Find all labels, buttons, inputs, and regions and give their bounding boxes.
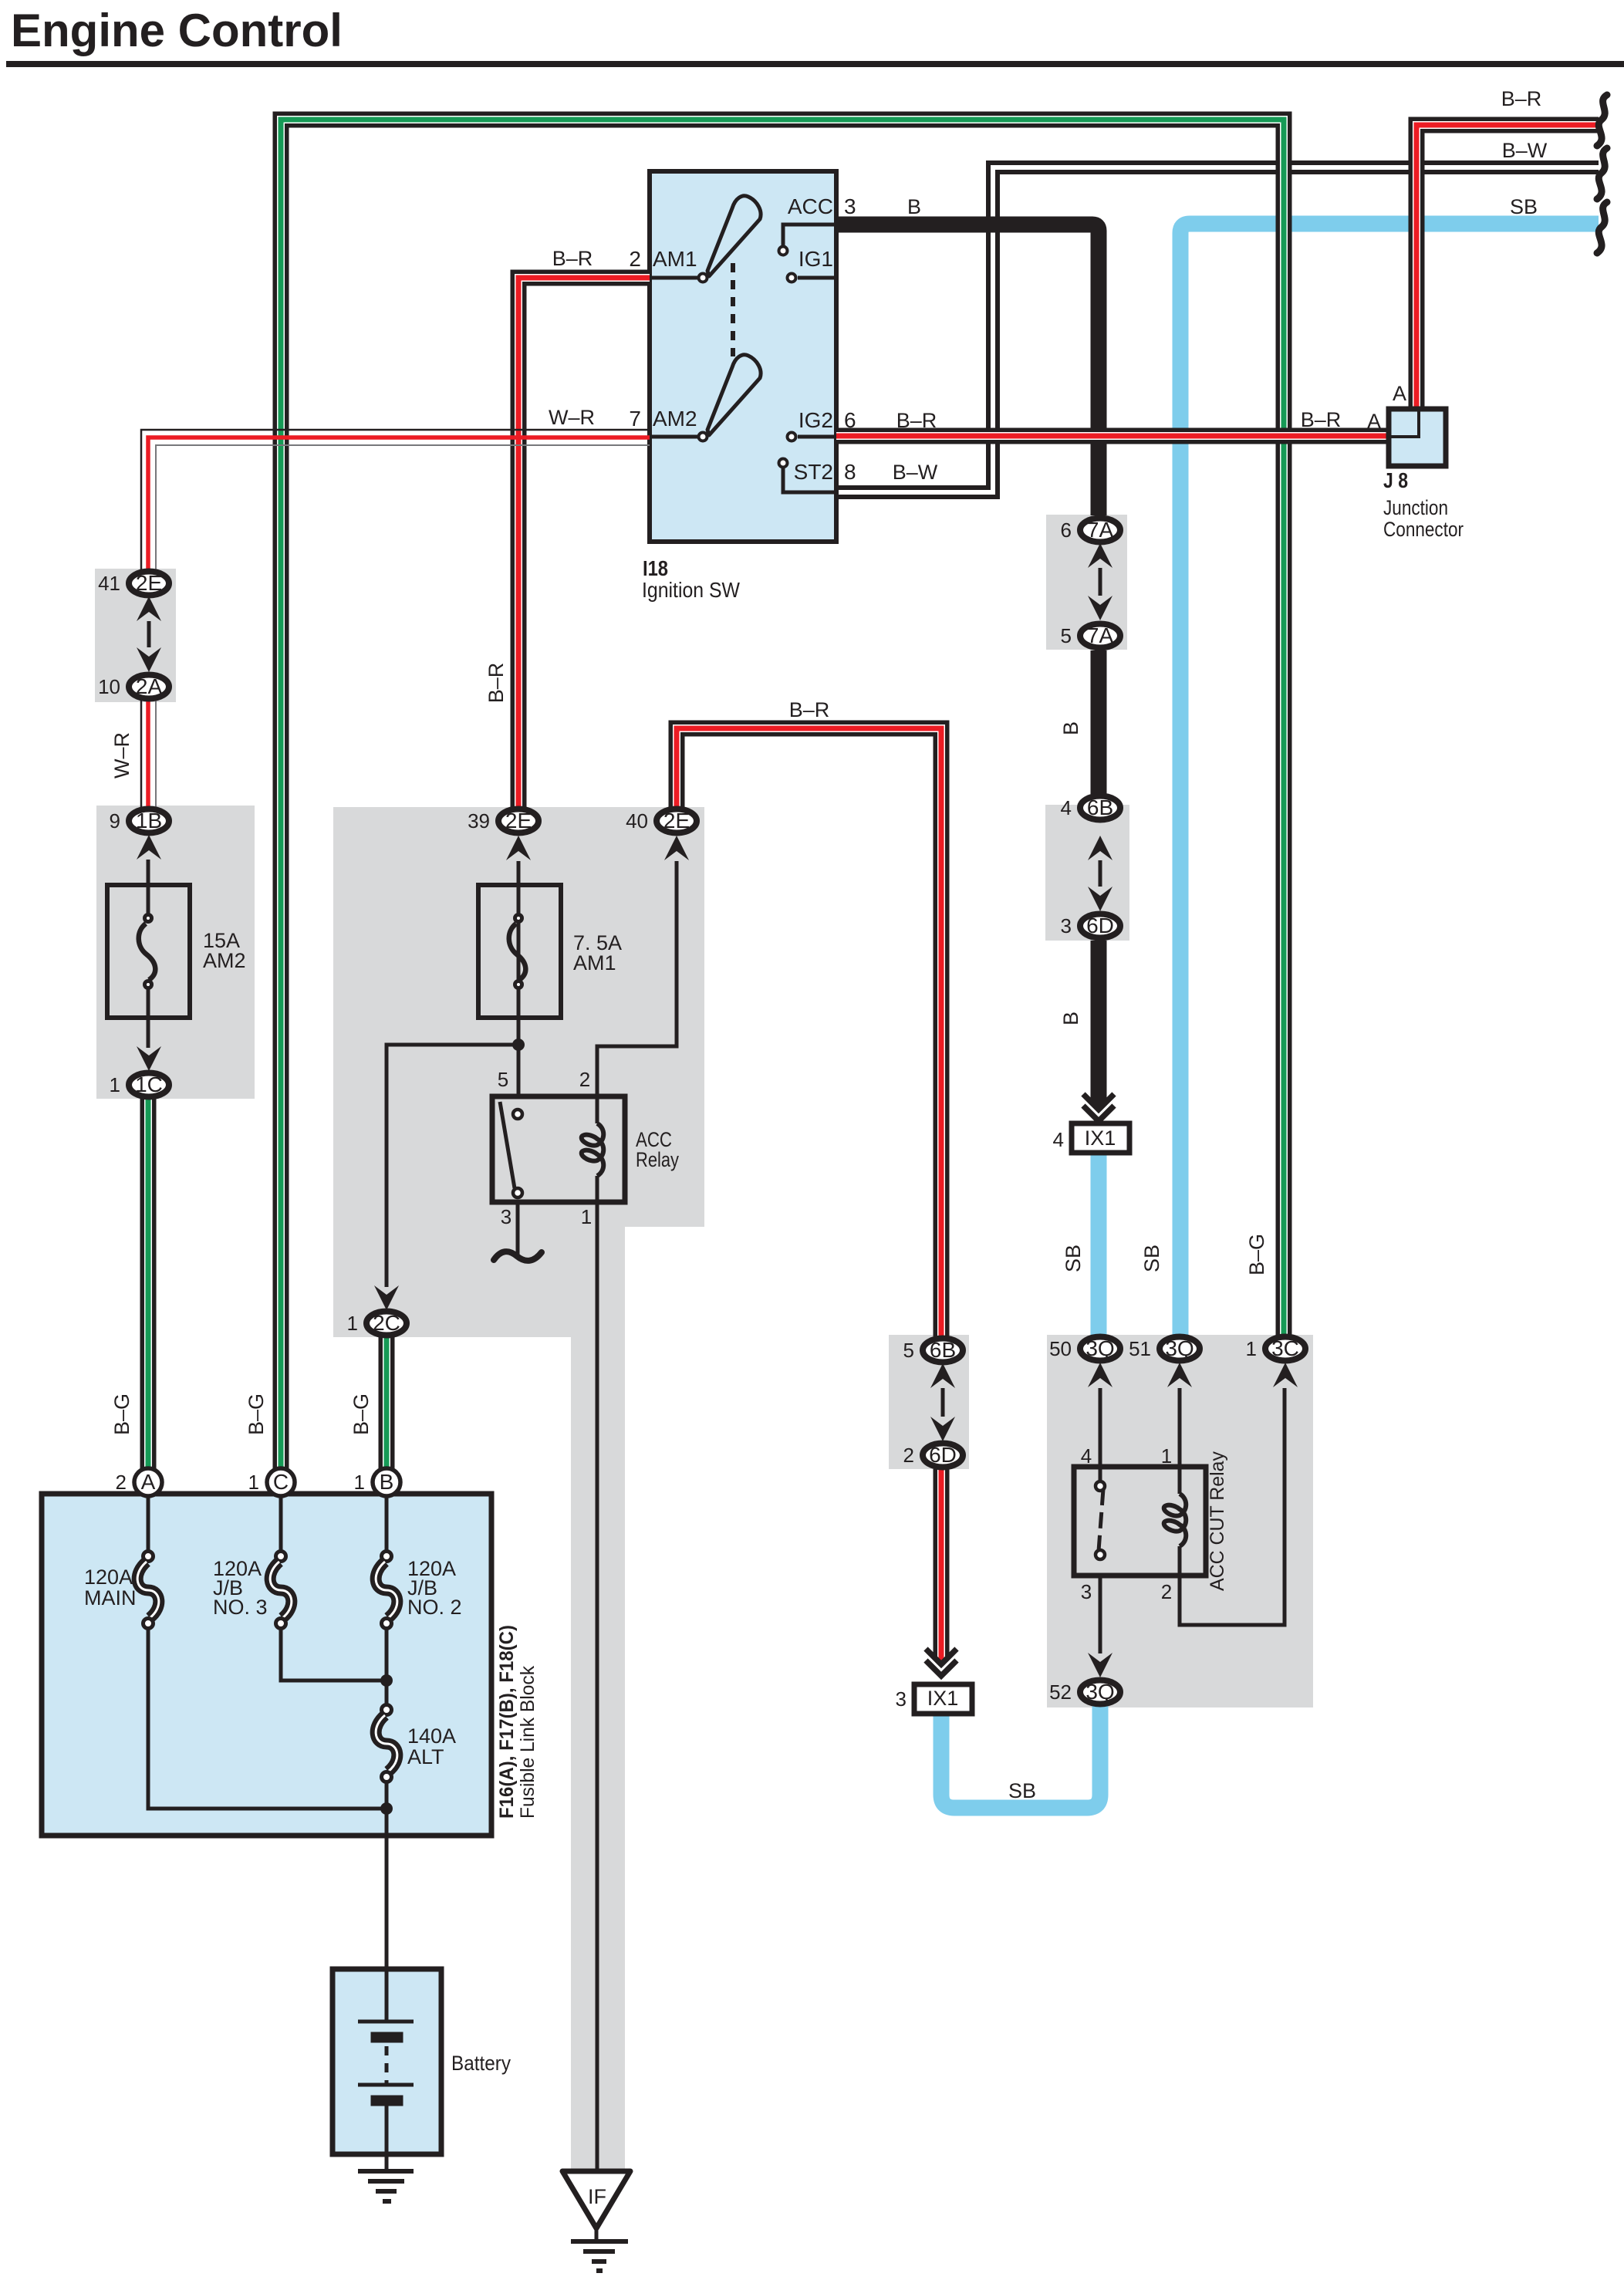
wire B-W from ST2 pin 8 to right edge: [836, 163, 1599, 497]
arrow into 5-7A: [1088, 596, 1112, 620]
svg-text:IG1: IG1: [798, 247, 833, 271]
wire B-G from fusible link C to ACC CUT relay 1-3C: [281, 120, 1284, 1475]
svg-text:B: B: [1059, 1012, 1082, 1025]
svg-text:IG2: IG2: [798, 408, 833, 432]
svg-text:B: B: [907, 195, 921, 218]
arrow into 1-2C: [374, 1285, 399, 1310]
svg-text:40: 40: [626, 809, 648, 833]
svg-text:B–W: B–W: [893, 461, 938, 484]
gray box around 1B / 15A AM2 fuse / 1C: [96, 806, 255, 1099]
svg-text:41: 41: [98, 572, 120, 595]
wire wire ACC relay pin 3 stub: [516, 1202, 520, 1257]
wire B-R from 40-2E to 5-6B: [677, 728, 941, 1336]
svg-text:B–R: B–R: [1301, 408, 1342, 431]
svg-text:7: 7: [629, 407, 641, 431]
wire B from ACC pin 3 to connector 6-7A: [836, 225, 1099, 515]
connector 1 1C: [110, 1072, 169, 1097]
svg-text:7A: 7A: [1087, 518, 1114, 542]
svg-text:3: 3: [844, 194, 856, 218]
svg-text:6B: 6B: [930, 1338, 956, 1362]
svg-text:SB: SB: [1062, 1245, 1085, 1272]
ACC Relay box: [492, 1096, 625, 1202]
ignition switch IG2 contact: [798, 435, 836, 439]
svg-text:SB: SB: [1008, 1779, 1036, 1802]
wire B-R between 2-6D and page link to 3-IX1: [934, 1469, 950, 1660]
svg-text:Battery: Battery: [451, 2052, 511, 2075]
svg-text:9: 9: [110, 809, 120, 833]
wire wire 51-3Q to ACC CUT relay coil pin 1: [1178, 1388, 1182, 1494]
svg-text:B–R: B–R: [1501, 87, 1542, 110]
svg-text:B–R: B–R: [552, 247, 593, 270]
wire W-R between 10-2A and 9-1B: [141, 701, 156, 808]
battery box: [333, 1969, 441, 2154]
svg-text:2E: 2E: [663, 809, 690, 833]
svg-text:5: 5: [498, 1068, 508, 1091]
ignition switch ST2 contact: [783, 468, 836, 492]
wire SB from 3-IX1 to 52-3Q: [941, 1706, 1100, 1808]
svg-text:6B: 6B: [1087, 795, 1113, 819]
wire wire between 2E/2A arrows: [147, 621, 151, 647]
svg-text:Ignition SW: Ignition SW: [642, 578, 741, 602]
svg-text:1: 1: [1246, 1337, 1257, 1360]
svg-text:5: 5: [1061, 624, 1072, 647]
ignition switch dashed link: [731, 263, 735, 356]
svg-text:2: 2: [629, 247, 641, 271]
connector 39 2E: [468, 809, 539, 833]
svg-text:1: 1: [248, 1471, 259, 1494]
ACC CUT Relay box: [1074, 1467, 1206, 1576]
ground IF triangle: [562, 2171, 630, 2228]
svg-text:1: 1: [1161, 1444, 1172, 1468]
svg-text:4: 4: [1061, 796, 1072, 819]
gray box around 7A connectors: [1046, 515, 1127, 650]
wire B between 3-6D and page link to IX1: [1091, 941, 1107, 1106]
svg-text:B: B: [1059, 721, 1082, 735]
svg-text:AM2: AM2: [203, 949, 246, 972]
ignition switch IG1 contact: [798, 276, 836, 280]
svg-text:A: A: [141, 1470, 156, 1494]
svg-text:B–G: B–G: [349, 1393, 373, 1435]
ground IF symbol: [571, 2228, 628, 2271]
arrow into 1-3C: [1273, 1363, 1298, 1387]
svg-text:B–R: B–R: [896, 409, 937, 432]
svg-text:3C: 3C: [1271, 1336, 1299, 1360]
battery ground: [358, 2171, 414, 2201]
svg-text:ST2: ST2: [794, 460, 833, 484]
wire wire from AM1 fuse output to connector 1-2C: [387, 1045, 518, 1287]
junction connector J8: [1389, 409, 1446, 466]
wire wire battery to ground: [385, 2104, 389, 2171]
ignition switch I18 box: [650, 171, 836, 542]
wire wire fusible link block to battery: [385, 1809, 389, 1969]
connector 3 6D: [1061, 914, 1120, 938]
svg-text:3Q: 3Q: [1085, 1336, 1114, 1360]
svg-text:6D: 6D: [929, 1443, 957, 1467]
connector 5 7A: [1061, 623, 1120, 648]
wire B between 5-7A and 4-6B: [1091, 650, 1107, 794]
ACC CUT relay switch contact: [1096, 1481, 1105, 1559]
svg-text:3Q: 3Q: [1085, 1680, 1114, 1704]
arrow into 39-2E: [506, 836, 531, 860]
connector fusible link B: [354, 1468, 400, 1496]
connector 41 2E: [98, 571, 169, 596]
svg-text:52: 52: [1049, 1680, 1072, 1704]
connector 50 3Q: [1049, 1336, 1120, 1361]
svg-text:4: 4: [1053, 1128, 1064, 1151]
connector 2 6D: [903, 1443, 963, 1468]
svg-text:2C: 2C: [373, 1311, 400, 1335]
connector fusible link A: [116, 1468, 162, 1496]
svg-text:IX1: IX1: [1085, 1126, 1116, 1150]
svg-text:B–G: B–G: [245, 1393, 268, 1435]
break squiggle on ACC relay pin 3: [494, 1251, 542, 1261]
arrow into 9-1B: [137, 835, 161, 860]
svg-text:AM1: AM1: [573, 951, 616, 974]
svg-text:Connector: Connector: [1383, 518, 1464, 541]
svg-text:3Q: 3Q: [1165, 1336, 1194, 1360]
to 3-IX1 page-link double chevron: [926, 1649, 957, 1676]
svg-text:1: 1: [347, 1312, 358, 1335]
arrow into 1-1C: [137, 1046, 161, 1071]
connector 1 3C: [1246, 1336, 1305, 1361]
B-W wire-continuation hook: [1597, 148, 1607, 199]
7.5A AM1 fuse element: [509, 885, 526, 1019]
connector 40 2E: [626, 809, 697, 833]
svg-text:W–R: W–R: [110, 732, 133, 779]
wire wire ACC CUT relay pin 3 to 52-3Q: [1099, 1576, 1102, 1653]
wire wire between 7A arrows: [1099, 568, 1102, 596]
connector fusible link C: [248, 1468, 295, 1496]
svg-text:B–R: B–R: [484, 663, 508, 704]
arrow into 2-6D: [930, 1417, 955, 1441]
connector 6 7A: [1061, 518, 1120, 542]
svg-text:1C: 1C: [135, 1072, 163, 1096]
wire wire between 5-6B/2-6D arrows: [941, 1388, 945, 1417]
wire wire 39-2E through 7.5A AM1 fuse to ACC relay pin 5: [517, 861, 521, 1096]
ignition switch ACC contact: [783, 225, 836, 245]
junction dot at AM1 fuse output: [512, 1039, 525, 1051]
wire wire 120A J/B NO.3 to junction: [281, 1623, 387, 1680]
SB wire-continuation hook: [1597, 202, 1607, 253]
svg-text:2: 2: [579, 1068, 590, 1091]
wire B-R from ignition IG2 pin 6 to junction connector J8: [836, 428, 1389, 444]
svg-text:IX1: IX1: [927, 1687, 959, 1710]
svg-text:120A: 120A: [84, 1566, 133, 1589]
fuse 15A AM2 box: [107, 885, 190, 1018]
fuse 7.5A AM1 box: [478, 885, 561, 1018]
svg-text:Fusible Link Block: Fusible Link Block: [517, 1666, 539, 1819]
svg-text:6: 6: [844, 408, 856, 432]
B-R wire-continuation hook: [1597, 95, 1607, 146]
connector 10 2A: [98, 674, 169, 699]
svg-text:B–R: B–R: [789, 698, 830, 721]
svg-text:B–G: B–G: [1245, 1234, 1268, 1275]
svg-text:SB: SB: [1140, 1245, 1163, 1272]
to 4-IX1 page-link double chevron: [1083, 1094, 1114, 1121]
svg-text:Junction: Junction: [1383, 496, 1448, 519]
svg-text:Engine Control: Engine Control: [11, 5, 343, 56]
connector 9 1B: [110, 809, 169, 833]
svg-text:10: 10: [98, 675, 120, 698]
junction dot J/B NO.3 + J/B NO.2: [380, 1674, 393, 1687]
ignition switch AM1 contact: [699, 274, 707, 282]
wire wire 9-1B to 15A AM2 fuse: [147, 860, 150, 885]
wire B-R from ignition AM1 pin 2 to 39-2E: [518, 278, 650, 808]
svg-text:NO. 3: NO. 3: [213, 1596, 268, 1619]
svg-text:AM2: AM2: [653, 407, 697, 431]
wire SB from right edge to connector 51-3Q: [1180, 224, 1599, 1336]
ignition switch AM2 contact: [699, 433, 707, 441]
svg-text:4: 4: [1081, 1444, 1092, 1468]
svg-text:A: A: [1367, 410, 1381, 433]
svg-text:39: 39: [468, 809, 490, 833]
junction dot MAIN + ALT: [380, 1802, 393, 1815]
wire wire 40-2E to ACC relay coil pin 2: [597, 861, 677, 1123]
arrow into 3-6D: [1088, 887, 1112, 911]
svg-text:1B: 1B: [136, 809, 162, 833]
svg-text:MAIN: MAIN: [84, 1586, 137, 1610]
arrow into 41-2E: [137, 596, 161, 621]
wire wire 120A J/B NO.2 to 140A ALT: [385, 1623, 389, 1710]
svg-text:2E: 2E: [505, 809, 532, 833]
connector 5 6B: [903, 1338, 963, 1363]
wire B-G from 1C to fusible link A: [140, 1099, 157, 1475]
arrow into 10-2A: [137, 647, 161, 672]
ignition switch AM2 rotor wedge: [707, 355, 761, 435]
svg-text:6: 6: [1061, 518, 1072, 542]
svg-text:NO. 2: NO. 2: [407, 1596, 462, 1619]
120A J/B NO.3 fusible link element: [270, 1552, 292, 1629]
arrow into 4-6B: [1088, 836, 1112, 860]
gray region around 7.5A AM1 fuse and ACC Relay with strip to IF ground: [333, 807, 704, 2171]
ACC CUT relay coil: [1164, 1494, 1187, 1546]
connector 4 IX1: [1053, 1123, 1129, 1153]
svg-text:B–G: B–G: [110, 1393, 133, 1435]
wire wire between 6B/6D arrows: [1099, 860, 1102, 887]
wire wire 15A AM2 fuse to 1-1C: [147, 1019, 150, 1048]
svg-text:B: B: [380, 1470, 394, 1494]
wire wire 1-3C to ACC CUT relay coil pin 2: [1180, 1388, 1285, 1625]
battery internals: [358, 1969, 414, 2154]
svg-text:51: 51: [1129, 1337, 1151, 1360]
svg-text:J 8: J 8: [1383, 468, 1408, 492]
svg-text:6D: 6D: [1086, 914, 1114, 937]
svg-text:2A: 2A: [136, 674, 163, 698]
arrow into 40-2E: [664, 836, 689, 860]
svg-text:SB: SB: [1510, 195, 1538, 218]
ACC relay coil: [582, 1123, 604, 1176]
svg-text:1: 1: [110, 1073, 120, 1096]
arrow into 50-3Q: [1088, 1363, 1112, 1387]
140A ALT fusible link element: [376, 1705, 397, 1782]
svg-text:I18: I18: [643, 556, 668, 580]
svg-text:ACC CUT Relay: ACC CUT Relay: [1207, 1451, 1228, 1591]
wire wire 140A ALT to junction: [385, 1778, 389, 1809]
title underline: [6, 61, 1624, 67]
svg-text:7A: 7A: [1087, 623, 1114, 647]
wire W-R from ignition AM2 pin 7 to 41-2E: [141, 430, 650, 571]
svg-text:ACC: ACC: [788, 194, 833, 218]
svg-text:A: A: [1393, 382, 1406, 405]
connector 52 3Q: [1049, 1680, 1120, 1704]
svg-text:ALT: ALT: [407, 1745, 444, 1768]
svg-text:AM1: AM1: [653, 247, 697, 271]
wire SB from 4-IX1 to connector 50-3Q: [1091, 1153, 1107, 1336]
svg-text:1: 1: [581, 1205, 592, 1228]
svg-text:3: 3: [1061, 914, 1072, 937]
connector 1 2C: [347, 1311, 407, 1336]
svg-text:Relay: Relay: [636, 1148, 679, 1171]
svg-text:IF: IF: [588, 2185, 606, 2208]
arrow into 52-3Q: [1088, 1653, 1112, 1677]
wire B-G from 2C to fusible link B: [379, 1336, 395, 1475]
svg-text:2E: 2E: [136, 571, 162, 595]
wire wire 120A MAIN to alternator junction: [148, 1623, 387, 1809]
svg-text:C: C: [273, 1470, 289, 1494]
svg-text:2: 2: [903, 1444, 914, 1467]
svg-text:F16(A), F17(B), F18(C): F16(A), F17(B), F18(C): [496, 1625, 518, 1819]
svg-text:W–R: W–R: [549, 406, 595, 429]
wire wire 50-3Q to ACC CUT relay pin 4: [1099, 1388, 1102, 1483]
wire wire fusible link A to 120A MAIN: [147, 1491, 150, 1550]
svg-text:3: 3: [896, 1687, 907, 1711]
fusible link block box: [42, 1494, 491, 1836]
svg-text:140A: 140A: [407, 1724, 456, 1748]
wire B-R from J8 pin A to right edge: [1416, 125, 1599, 409]
svg-text:B–W: B–W: [1502, 139, 1548, 162]
connector 4 6B: [1061, 795, 1120, 820]
connector 51 3Q: [1129, 1336, 1200, 1361]
gray box around ACC CUT Relay: [1047, 1335, 1313, 1707]
15A AM2 fuse element: [139, 885, 156, 1019]
svg-text:3: 3: [1081, 1580, 1092, 1603]
120A MAIN fusible link element: [137, 1552, 159, 1629]
svg-text:8: 8: [844, 460, 856, 484]
120A J/B NO.2 fusible link element: [376, 1552, 397, 1629]
connector 3 IX1: [896, 1684, 972, 1714]
gray box around 5-6B/2-6D connectors: [889, 1335, 969, 1469]
wire wire ACC relay pin 1 to ground IF: [596, 1176, 599, 2171]
svg-text:1: 1: [354, 1471, 365, 1494]
arrow into 51-3Q: [1167, 1363, 1192, 1387]
svg-text:2: 2: [116, 1471, 127, 1494]
gray box around 2E/2A connectors: [95, 569, 176, 702]
wire wire fusible link B to 120A J/B NO.2: [385, 1491, 389, 1550]
arrow into 6-7A: [1088, 543, 1112, 568]
gray box around 4-6B/3-6D connectors: [1045, 805, 1129, 941]
ignition switch AM1 rotor wedge: [707, 196, 761, 276]
svg-text:5: 5: [903, 1339, 914, 1362]
ACC relay switch contact: [500, 1102, 522, 1197]
svg-text:3: 3: [501, 1205, 512, 1228]
arrow into 5-6B: [930, 1363, 955, 1388]
svg-text:50: 50: [1049, 1337, 1072, 1360]
svg-text:2: 2: [1161, 1580, 1172, 1603]
wire wire fusible link C to 120A J/B NO.3: [279, 1491, 283, 1550]
